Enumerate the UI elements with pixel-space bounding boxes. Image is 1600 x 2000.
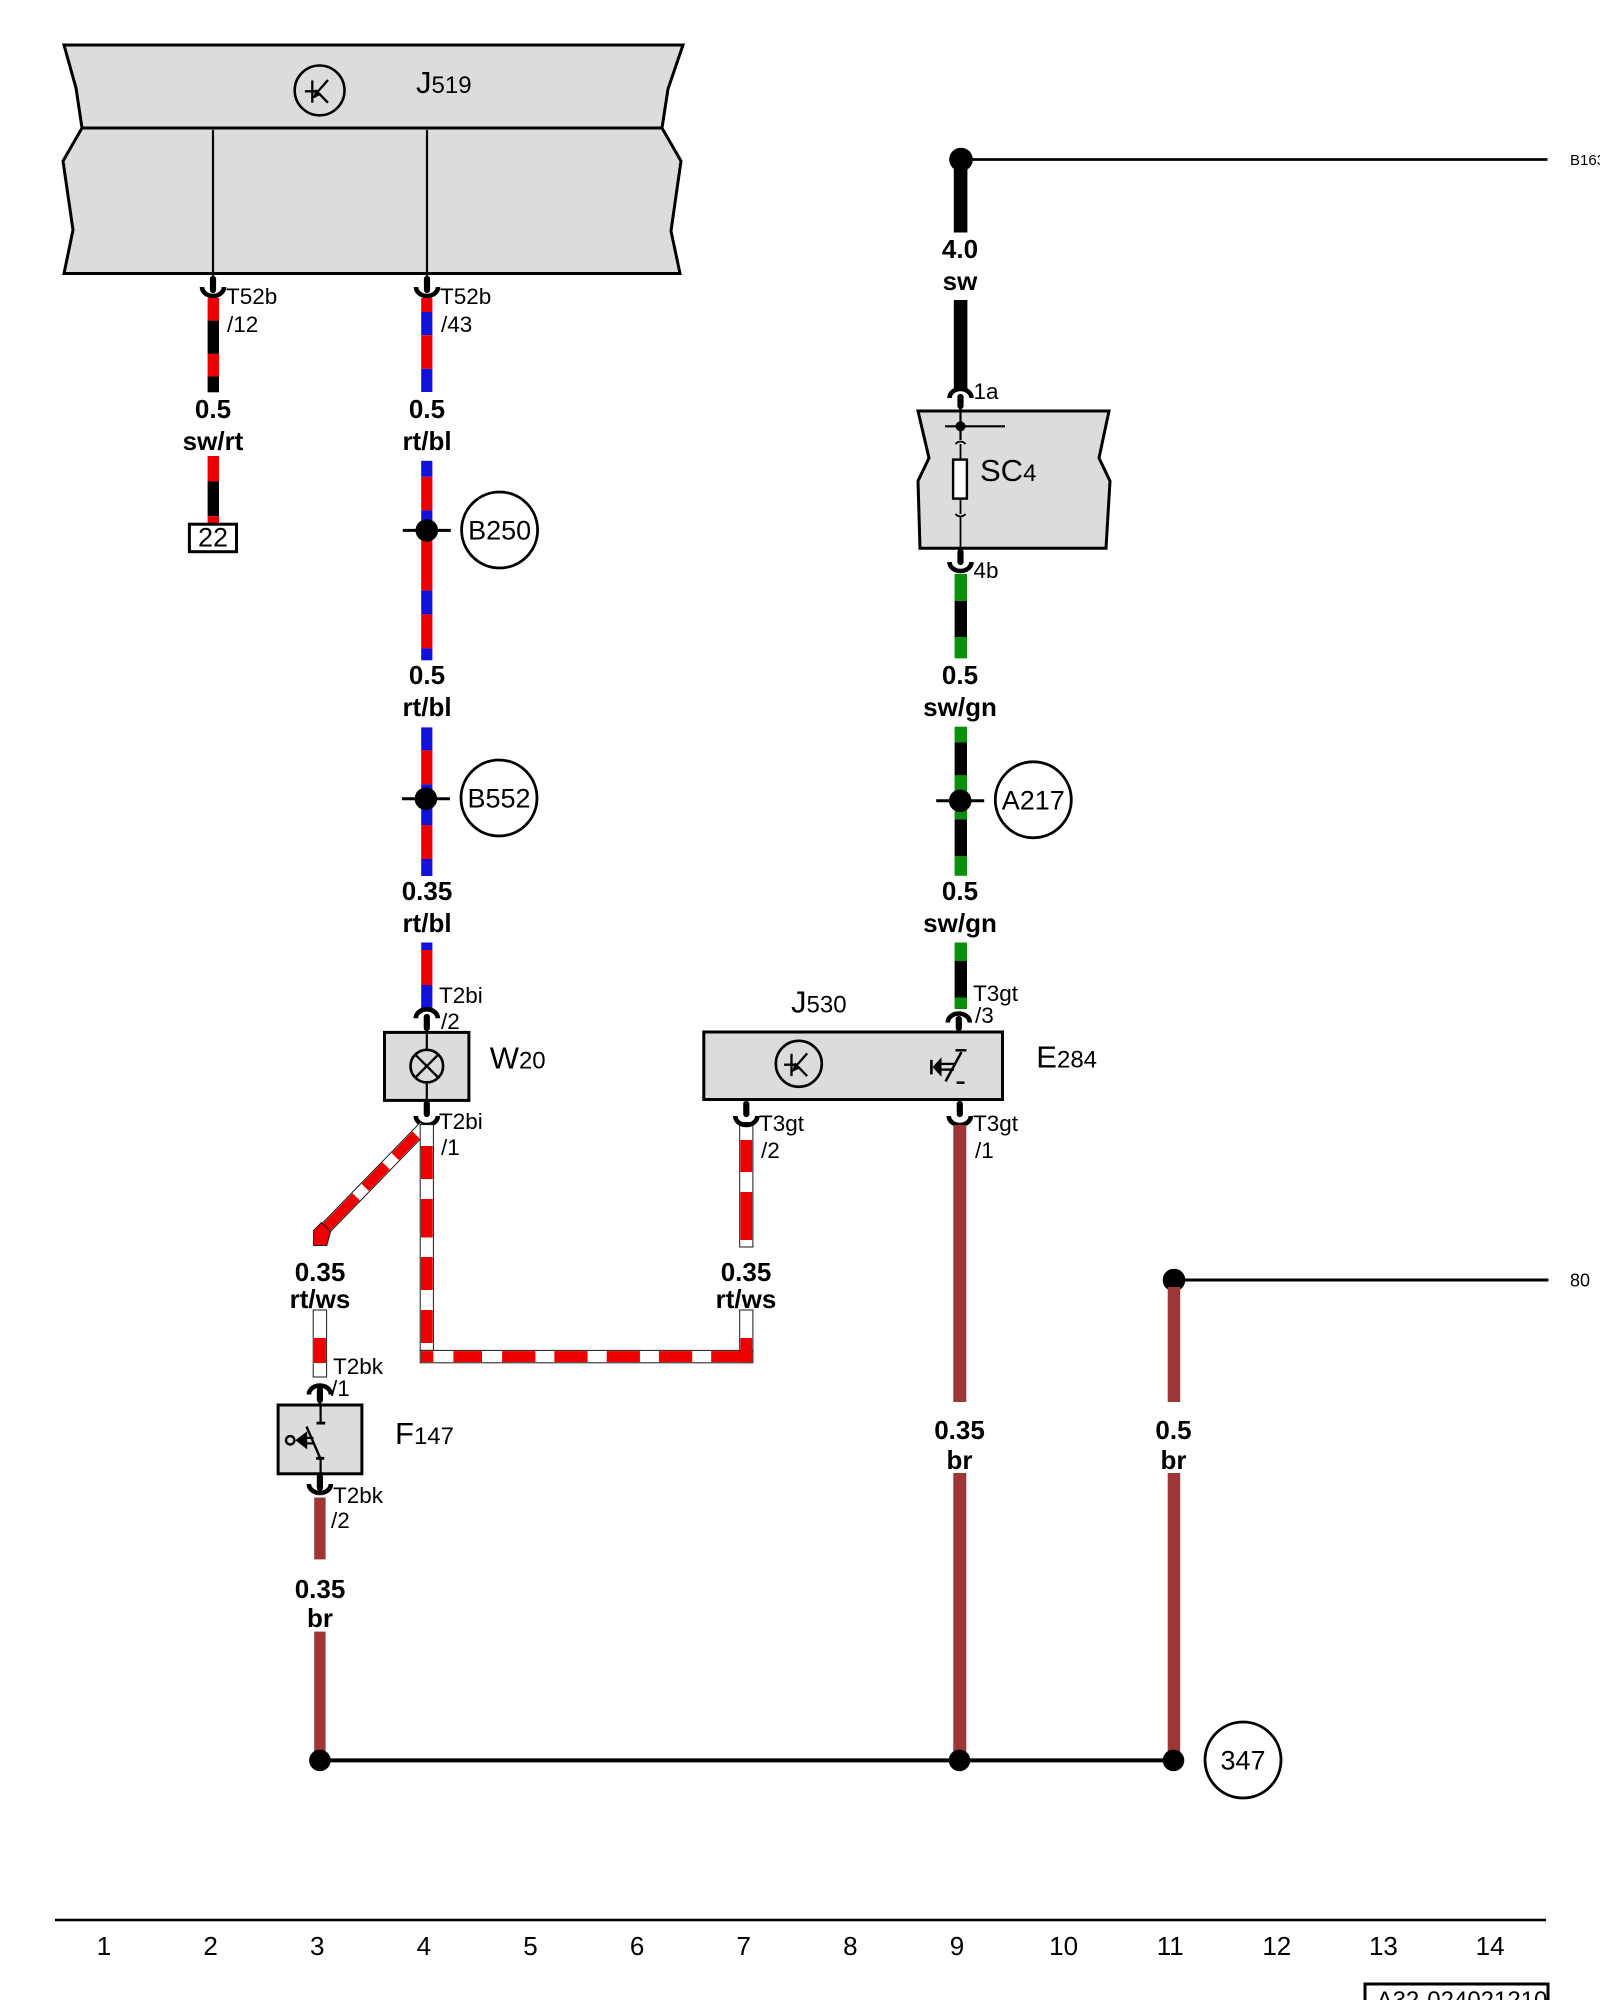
node circle B250 (462, 492, 538, 568)
svg-text:/2: /2 (331, 1508, 350, 1533)
connector T3gt/2 (735, 1104, 804, 1163)
svg-text:rt/bl: rt/bl (402, 908, 451, 938)
wire 0.35 rt/ws (W20 T2bi/1 down, right along bottom, up to J530 T3gt/2) (420, 1123, 776, 1363)
svg-text:0.35: 0.35 (295, 1574, 346, 1604)
svg-text:80: 80 (1570, 1271, 1590, 1291)
wire inside J519 to pin T52b/43 (426, 130, 428, 272)
control unit J530 with switch E284 (box) (704, 1032, 1003, 1100)
connector T2bi/1 (416, 1104, 483, 1160)
junction node B552 (402, 797, 450, 800)
svg-text:B552: B552 (467, 784, 530, 814)
svg-text:5: 5 (523, 1931, 537, 1961)
node circle 347 (ground point) (1205, 1722, 1281, 1798)
svg-text:T3gt: T3gt (759, 1111, 805, 1136)
svg-text:7: 7 (736, 1931, 750, 1961)
svg-text:347: 347 (1220, 1746, 1265, 1776)
switch symbol E284 (dimmer arrow) (931, 1050, 966, 1082)
svg-text:/1: /1 (331, 1376, 350, 1401)
wire 0.5 sw/rt (J519 T52b/12 to terminal 22) (183, 298, 244, 525)
svg-text:sw: sw (943, 266, 978, 296)
svg-text:0.5: 0.5 (195, 394, 231, 424)
ground wire (rail between junctions) (320, 1758, 1174, 1762)
diagram number box A32-024021210 (1365, 1984, 1548, 2000)
switch F147 (luggage compartment light switch) (278, 1405, 454, 1474)
connector 4b (950, 552, 999, 583)
svg-text:/1: /1 (441, 1135, 460, 1160)
svg-text:0.5: 0.5 (942, 660, 978, 690)
wire 0.35 rt/ws (W20 T2bi/1 diagonal down-left to F147) (290, 1122, 429, 1377)
svg-text:0.35: 0.35 (934, 1415, 985, 1445)
svg-text:B163: B163 (1570, 152, 1600, 169)
grid numbers 1-14 (97, 1931, 1505, 1961)
svg-text:0.5: 0.5 (409, 660, 445, 690)
svg-text:/12: /12 (227, 312, 258, 337)
junction node on plus connection B163 (949, 148, 973, 172)
connector T52b/12 (202, 272, 277, 337)
svg-text:4b: 4b (974, 558, 999, 583)
connector T52b/43 (416, 272, 491, 337)
svg-text:0.35: 0.35 (402, 876, 453, 906)
svg-text:rt/bl: rt/bl (402, 692, 451, 722)
wire 0.5 sw/gn (A217 down to E284 T3gt/3) (923, 876, 997, 1009)
connector T2bi/2 (416, 983, 483, 1034)
svg-text:sw/gn: sw/gn (923, 908, 997, 938)
svg-text:4: 4 (417, 1931, 431, 1961)
wire 4.0 sw (B163 node down to SC4 1a) (942, 160, 978, 390)
svg-text:1a: 1a (974, 379, 1000, 404)
svg-text:T2bk: T2bk (333, 1483, 384, 1508)
wire inside J519 to pin T52b/12 (212, 130, 214, 272)
svg-text:A32-024021210: A32-024021210 (1377, 1987, 1548, 2000)
svg-text:0.35: 0.35 (295, 1257, 346, 1287)
svg-text:12: 12 (1262, 1931, 1291, 1961)
svg-text:9: 9 (950, 1931, 964, 1961)
svg-text:T52b: T52b (226, 284, 277, 309)
connector T2bk/2 (309, 1477, 384, 1533)
wire 0.35 br (F147 T2bk/2 down to ground node 347 line) (295, 1498, 346, 1756)
svg-text:0.5: 0.5 (942, 876, 978, 906)
svg-text:1: 1 (97, 1931, 111, 1961)
control unit J519 (upper box with symbol) (64, 45, 683, 128)
svg-text:11: 11 (1157, 1931, 1184, 1961)
wire 0.35 br (E284 T3gt/1 down to ground node 347 line) (934, 1125, 985, 1755)
connector 1a (950, 379, 1000, 411)
svg-text:T52b: T52b (440, 284, 491, 309)
ground junction (left) (309, 1750, 331, 1772)
svg-text:T2bi: T2bi (439, 983, 483, 1008)
wire 0.5 sw/gn (SC4 4b down to A217) (923, 574, 997, 876)
terminal 22 (189, 523, 236, 553)
grid ruler line (55, 1919, 1546, 1922)
wire 0.5 rt/bl (B250 down to B552) (402, 660, 451, 876)
wire to connection 80 (1174, 1279, 1548, 1282)
svg-text:br: br (307, 1603, 333, 1633)
svg-text:T3gt: T3gt (973, 1111, 1019, 1136)
svg-text:13: 13 (1369, 1931, 1398, 1961)
svg-text:/1: /1 (975, 1138, 994, 1163)
svg-text:3: 3 (310, 1931, 324, 1961)
wire to plus connection B163 (961, 158, 1548, 161)
connector T3gt/1 (949, 1104, 1019, 1163)
ground junction (right) (1163, 1750, 1185, 1772)
svg-text:4.0: 4.0 (942, 234, 978, 264)
svg-text:14: 14 (1476, 1931, 1505, 1961)
junction node A217 (936, 799, 984, 802)
svg-text:6: 6 (630, 1931, 644, 1961)
svg-text:rt/bl: rt/bl (402, 426, 451, 456)
svg-text:2: 2 (203, 1931, 217, 1961)
svg-text:sw/gn: sw/gn (923, 692, 997, 722)
svg-text:/3: /3 (975, 1003, 994, 1028)
svg-text:B250: B250 (468, 516, 531, 546)
connector T2bk/1 (309, 1354, 384, 1405)
svg-text:/43: /43 (441, 312, 472, 337)
svg-text:0.5: 0.5 (409, 394, 445, 424)
control unit J519 (lower torn box) (63, 128, 681, 274)
wire 0.35 rt/bl (B552 down to W20 T2bi/2) (402, 876, 453, 1009)
svg-text:sw/rt: sw/rt (183, 426, 244, 456)
svg-text:0.35: 0.35 (721, 1257, 772, 1287)
relay symbol inside J530 (776, 1041, 822, 1087)
svg-text:/2: /2 (441, 1009, 460, 1034)
wire 0.5 br (connection 80 down to ground node 347 line) (1155, 1287, 1191, 1755)
svg-text:0.5: 0.5 (1155, 1415, 1191, 1445)
junction node on connection 80 (1163, 1269, 1186, 1292)
svg-text:8: 8 (843, 1931, 857, 1961)
lamp W20 (number plate light) (385, 1032, 546, 1100)
node circle A217 (995, 762, 1071, 838)
svg-text:22: 22 (198, 523, 228, 553)
svg-text:/2: /2 (761, 1138, 780, 1163)
fuse SC4 (torn-edge fuse box) (918, 411, 1110, 548)
junction node B250 (403, 529, 451, 532)
ground junction (middle) (949, 1750, 971, 1772)
node circle B552 (461, 760, 537, 836)
connector T3gt/3 (948, 981, 1019, 1033)
svg-text:br: br (947, 1445, 973, 1475)
svg-text:10: 10 (1049, 1931, 1078, 1961)
svg-text:A217: A217 (1002, 785, 1065, 815)
svg-text:br: br (1161, 1445, 1187, 1475)
wire 0.5 rt/bl (J519 T52b/43 down to B250) (402, 298, 451, 660)
svg-text:T2bi: T2bi (439, 1109, 483, 1134)
